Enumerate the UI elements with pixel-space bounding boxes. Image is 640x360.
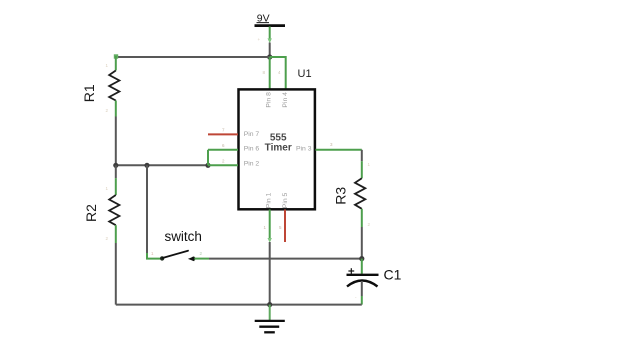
svg-text:Timer: Timer <box>265 143 292 154</box>
ground symbol <box>255 321 285 332</box>
green endpoint at R1 corner <box>114 54 118 58</box>
wire arrow marker <box>268 38 272 43</box>
junction dot right <box>205 163 210 168</box>
wire pin6 down to node <box>207 150 209 166</box>
switch right terminal endpoint <box>191 257 195 261</box>
wire 9V lower gray segment <box>269 43 271 58</box>
resistor R2 bottom leg <box>115 225 117 243</box>
svg-text:Pin 6: Pin 6 <box>244 145 260 152</box>
wire pin6 green <box>208 149 238 151</box>
horizontal wire node row y165 <box>116 164 208 166</box>
wire pin1 gray to ground rail <box>269 242 271 305</box>
svg-text:Pin 3: Pin 3 <box>296 145 312 152</box>
wire pin4 green <box>270 57 286 89</box>
svg-text:C1: C1 <box>384 267 402 283</box>
resistor R3 zigzag <box>355 178 365 209</box>
wire node to R2 <box>115 165 117 178</box>
ground stub green <box>269 305 271 320</box>
svg-text:Pin 1: Pin 1 <box>266 192 273 208</box>
svg-text:+: + <box>258 37 261 42</box>
wire pin2 green <box>208 164 238 166</box>
power supply 9V label <box>257 12 270 24</box>
capacitor C1 plus sign <box>348 268 354 274</box>
wire pin5 red <box>284 210 286 243</box>
svg-text:R1: R1 <box>81 84 97 102</box>
wire R3 corner down <box>361 150 363 161</box>
switch lever <box>163 251 189 258</box>
svg-text:Pin 8: Pin 8 <box>266 92 273 108</box>
wire R1 bottom to node row <box>115 117 117 166</box>
switch left terminal <box>160 256 164 260</box>
wire pin3 to R3 <box>316 149 362 151</box>
junction node R3/C1/switch <box>359 256 364 261</box>
svg-text:Pin 4: Pin 4 <box>282 92 289 108</box>
wire junction to R1 top corner <box>115 56 270 58</box>
wire switch to C1 node <box>209 258 362 260</box>
wire switch right green <box>195 258 210 260</box>
switch right contact arrow <box>188 256 194 261</box>
wire node to C1 top plate green <box>361 259 363 274</box>
svg-text:Pin 2: Pin 2 <box>244 161 260 168</box>
capacitor C1 curved plate <box>347 281 378 287</box>
capacitor C1 top plate <box>347 274 379 276</box>
wire pin1 arrow <box>268 238 272 243</box>
svg-text:switch: switch <box>164 229 202 244</box>
bottom rail wire <box>116 304 362 306</box>
resistor R3 top leg <box>361 161 363 178</box>
wire pin8 green <box>269 57 271 89</box>
resistor R2 top leg <box>115 178 117 195</box>
svg-text:R2: R2 <box>83 204 99 222</box>
wire pin1 green <box>269 210 271 241</box>
resistor R1 zigzag <box>109 71 119 101</box>
resistor R3 bottom leg <box>361 209 363 227</box>
wire pin7 red <box>208 133 238 135</box>
junction node top <box>267 54 272 59</box>
junction dot left <box>113 163 118 168</box>
wire 9V bar down to junction (green upper) <box>269 27 271 42</box>
resistor R1 bottom leg <box>115 101 117 117</box>
wire R2 to bottom rail <box>115 243 117 305</box>
wire C1 bottom green <box>361 296 363 305</box>
resistor R2 zigzag <box>109 195 119 225</box>
wire R3 to node <box>361 227 363 259</box>
wire switch corner green <box>147 253 160 259</box>
wire node mid down to switch <box>146 165 148 253</box>
svg-text:U1: U1 <box>298 68 312 80</box>
resistor R1 top leg <box>115 56 117 71</box>
svg-text:Pin 5: Pin 5 <box>282 192 289 208</box>
555 timer U1 box <box>239 89 315 209</box>
svg-text:R3: R3 <box>332 187 348 205</box>
svg-text:Pin 7: Pin 7 <box>244 131 260 138</box>
power supply 9V bar <box>255 24 286 27</box>
junction dot mid <box>144 163 149 168</box>
wire C1 bottom gray <box>361 281 363 296</box>
junction dot ground <box>267 302 272 307</box>
